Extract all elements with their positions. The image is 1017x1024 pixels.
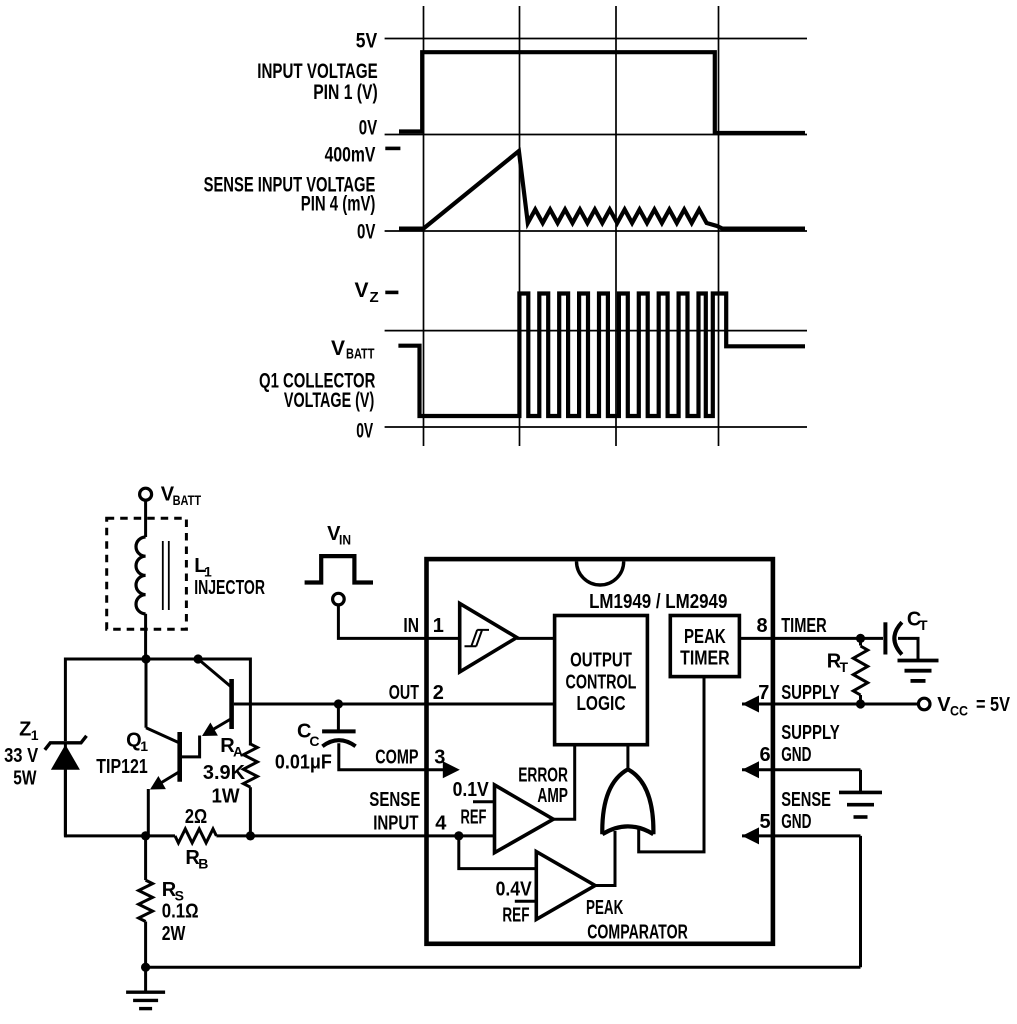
label VBATT (terminal) bbox=[161, 484, 202, 508]
label Q1 COLLECTOR bbox=[259, 370, 375, 393]
svg-text:ERROR: ERROR bbox=[518, 765, 568, 787]
svg-text:TIP121: TIP121 bbox=[96, 756, 147, 778]
svg-text:GND: GND bbox=[781, 744, 811, 766]
VIN pulse symbol bbox=[305, 556, 373, 582]
svg-text:T: T bbox=[919, 617, 928, 633]
label 0V (collector) bbox=[356, 420, 373, 443]
svg-text:SENSE: SENSE bbox=[369, 789, 420, 811]
waveform grid VBATT level line bbox=[385, 330, 807, 332]
svg-text:0V: 0V bbox=[359, 116, 377, 139]
svg-text:PIN 4 (mV): PIN 4 (mV) bbox=[301, 193, 376, 216]
label 33 V bbox=[4, 745, 39, 767]
svg-text:OUTPUT: OUTPUT bbox=[570, 649, 632, 671]
svg-text:AMP: AMP bbox=[537, 785, 568, 807]
svg-text:1: 1 bbox=[31, 727, 39, 743]
node emitter/RS junction bbox=[141, 831, 150, 840]
node RT bottom junction bbox=[856, 699, 865, 708]
node RT/CT junction bbox=[856, 634, 865, 643]
label PEAK COMPARATOR bbox=[586, 897, 688, 944]
wire OR gate right input from peak timer bbox=[639, 677, 704, 852]
IC notch bbox=[577, 561, 624, 585]
resistor RT bbox=[853, 638, 867, 704]
svg-text:Z: Z bbox=[19, 719, 31, 741]
node driver collector junction bbox=[194, 654, 203, 663]
svg-text:7: 7 bbox=[758, 682, 769, 704]
capacitor CT bbox=[885, 622, 902, 654]
wire peak comparator output bbox=[595, 831, 615, 886]
Q1 driver emitter bbox=[180, 719, 232, 757]
svg-text:0.1Ω: 0.1Ω bbox=[162, 901, 199, 923]
svg-text:SUPPLY: SUPPLY bbox=[781, 722, 840, 744]
error amp 0.1V REF input bbox=[473, 800, 495, 803]
label 5V bbox=[356, 29, 377, 52]
wire CT to ground bbox=[898, 638, 918, 660]
svg-text:LM1949 / LM2949: LM1949 / LM2949 bbox=[589, 591, 727, 613]
svg-text:C: C bbox=[309, 733, 319, 749]
wire pin 7 SUPPLY external bbox=[742, 696, 918, 713]
wire top rail bbox=[65, 659, 250, 837]
label TIP121 bbox=[96, 756, 147, 778]
label 0.01uF bbox=[275, 751, 332, 773]
svg-text:OUT: OUT bbox=[389, 682, 419, 704]
svg-text:5V: 5V bbox=[356, 29, 377, 52]
svg-text:IN: IN bbox=[403, 615, 419, 637]
IC box LM1949 bbox=[427, 559, 773, 944]
svg-text:5: 5 bbox=[760, 811, 771, 833]
node CC junction bbox=[334, 699, 343, 708]
svg-text:INPUT: INPUT bbox=[373, 813, 418, 835]
wire Z1 to bottom rail bbox=[64, 770, 67, 836]
wire VBATT to L1 bbox=[144, 501, 147, 538]
label VZ bbox=[354, 279, 378, 306]
label 0V (input) bbox=[359, 116, 377, 139]
svg-text:LOGIC: LOGIC bbox=[576, 693, 625, 715]
label 0.1V REF bbox=[453, 779, 490, 828]
waveform grid 0V line (sense input) bbox=[385, 230, 807, 232]
svg-text:PEAK: PEAK bbox=[684, 626, 726, 648]
transistor Q1 driver device bar bbox=[229, 679, 234, 729]
label 0.4V REF bbox=[496, 879, 533, 927]
inductor L1 bbox=[136, 537, 146, 614]
wire sense to peak comparator bbox=[459, 836, 537, 869]
svg-text:SUPPLY: SUPPLY bbox=[781, 682, 840, 704]
svg-text:V: V bbox=[331, 337, 345, 360]
svg-text:5W: 5W bbox=[13, 767, 36, 789]
svg-text:COMPARATOR: COMPARATOR bbox=[587, 922, 688, 944]
capacitor CC bbox=[322, 704, 426, 770]
wire bottom rail left bbox=[65, 834, 175, 837]
VCC terminal bbox=[918, 698, 930, 710]
label Z1 bbox=[19, 719, 39, 744]
svg-text:Z: Z bbox=[370, 289, 379, 306]
svg-text:0.1V: 0.1V bbox=[453, 779, 490, 801]
svg-text:2: 2 bbox=[433, 682, 444, 704]
Q1 output emitter bbox=[148, 772, 179, 836]
label 3.9K bbox=[203, 762, 246, 784]
label ERROR AMP bbox=[518, 765, 568, 807]
waveform grid 0V line (input voltage) bbox=[385, 134, 807, 136]
pin 5 label SENSE GND bbox=[760, 789, 832, 833]
peak comparator 0.4V REF input bbox=[515, 900, 537, 903]
svg-text:1: 1 bbox=[140, 738, 148, 754]
wire pin 3 COMP inside bbox=[427, 761, 460, 778]
wire bottom rail right bbox=[216, 834, 426, 837]
svg-text:400mV: 400mV bbox=[325, 144, 376, 167]
waveform grid vertical lines bbox=[424, 6, 719, 446]
waveform grid horizontal 5V level line bbox=[385, 38, 807, 40]
pin 6 label SUPPLY GND bbox=[760, 722, 841, 766]
svg-text:REF: REF bbox=[502, 905, 529, 927]
svg-text:33 V: 33 V bbox=[4, 745, 39, 767]
label 0V (sense) bbox=[357, 221, 375, 244]
svg-text:= 5V: = 5V bbox=[976, 694, 1011, 716]
svg-text:REF: REF bbox=[461, 806, 487, 828]
label OUTPUT CONTROL LOGIC bbox=[566, 649, 637, 715]
svg-text:0.4V: 0.4V bbox=[496, 879, 533, 901]
ground symbol main bbox=[126, 967, 165, 1008]
pin 1 label IN bbox=[403, 615, 443, 637]
label CC bbox=[297, 721, 320, 750]
label RA bbox=[220, 735, 243, 760]
svg-text:VOLTAGE (V): VOLTAGE (V) bbox=[284, 389, 374, 412]
label PIN 4 (mV) bbox=[301, 193, 376, 216]
label VIN bbox=[327, 523, 351, 547]
zener diode Z1 triangle bbox=[51, 745, 80, 770]
svg-text:IN: IN bbox=[339, 531, 351, 547]
schmitt buffer U1a bbox=[460, 603, 517, 672]
svg-text:INPUT VOLTAGE: INPUT VOLTAGE bbox=[257, 60, 377, 83]
svg-text:T: T bbox=[840, 659, 849, 675]
OUTPUT CONTROL LOGIC box bbox=[555, 616, 648, 745]
VIN terminal bbox=[333, 593, 345, 605]
op-amp peak comparator bbox=[536, 852, 595, 920]
label SENSE INPUT VOLTAGE bbox=[204, 173, 376, 196]
node sense input inside IC bbox=[427, 831, 495, 840]
svg-text:2Ω: 2Ω bbox=[185, 806, 207, 828]
svg-text:INJECTOR: INJECTOR bbox=[194, 577, 265, 599]
svg-text:0V: 0V bbox=[357, 221, 375, 244]
schmitt hysteresis symbol bbox=[465, 630, 490, 646]
label CT bbox=[907, 609, 928, 634]
resistor RB bbox=[175, 829, 216, 843]
injector dashed box bbox=[107, 518, 187, 629]
svg-text:4: 4 bbox=[435, 813, 447, 835]
L1 core lines bbox=[163, 541, 169, 610]
label L1 bbox=[194, 555, 212, 579]
svg-text:PEAK: PEAK bbox=[586, 897, 624, 919]
Q1 driver collector bbox=[198, 659, 231, 687]
OR gate bbox=[602, 769, 653, 834]
zener diode Z1 cathode bar bbox=[45, 736, 87, 750]
ground symbol supply bbox=[898, 661, 939, 681]
transistor Q1 output device bar bbox=[177, 732, 182, 782]
node RA junction bbox=[246, 831, 255, 840]
label VCC = 5V bbox=[937, 694, 1010, 718]
wire pin 8 TIMER external bbox=[773, 637, 883, 640]
label VOLTAGE (V) bbox=[284, 389, 374, 412]
op-amp error amp bbox=[495, 785, 554, 853]
label 2ohm bbox=[185, 806, 207, 828]
label Q1 bbox=[126, 730, 148, 755]
svg-text:CC: CC bbox=[950, 702, 968, 718]
label RT bbox=[827, 651, 849, 676]
svg-text:B: B bbox=[198, 856, 208, 872]
pin 7 label SUPPLY bbox=[758, 682, 840, 704]
svg-text:SENSE: SENSE bbox=[781, 789, 831, 811]
svg-text:COMP: COMP bbox=[375, 747, 418, 769]
wire schmitt output bbox=[517, 637, 555, 640]
svg-text:PIN 1 (V): PIN 1 (V) bbox=[313, 81, 378, 104]
wire pin 2 inside IC bbox=[427, 703, 555, 706]
ground symbol sense bbox=[839, 792, 882, 817]
label 2W bbox=[162, 923, 186, 945]
svg-text:8: 8 bbox=[757, 615, 768, 637]
svg-text:CONTROL: CONTROL bbox=[566, 671, 637, 693]
label PEAK TIMER bbox=[680, 626, 730, 670]
label 1W bbox=[212, 786, 240, 808]
label VBATT (waveform) bbox=[331, 337, 375, 363]
waveform grid 0V line (Q1 collector) bbox=[385, 426, 807, 428]
wire error amp output bbox=[553, 745, 574, 820]
VZ tick mark bbox=[385, 291, 398, 295]
PEAK TIMER box bbox=[670, 616, 739, 677]
svg-text:3.9K: 3.9K bbox=[203, 762, 246, 784]
node ground junction bbox=[141, 963, 150, 972]
pin 8 label TIMER bbox=[757, 615, 828, 637]
resistor RA bbox=[243, 744, 257, 836]
wire L1 to top rail bbox=[144, 614, 147, 661]
svg-text:1: 1 bbox=[433, 615, 444, 637]
node L1/collector junction bbox=[141, 654, 150, 663]
wire VIN to pin 1 bbox=[338, 605, 459, 639]
label RB bbox=[185, 847, 208, 872]
400mV tick mark bbox=[385, 147, 400, 151]
Q1 collector voltage waveform bbox=[398, 294, 805, 417]
svg-text:TIMER: TIMER bbox=[680, 648, 730, 670]
pin 2 label OUT bbox=[389, 682, 444, 704]
VBATT terminal bbox=[140, 488, 152, 500]
wire pin 2 OUT to Q1 base bbox=[234, 703, 427, 706]
Q1 output collector bbox=[146, 659, 179, 743]
wire ground rail bbox=[146, 966, 861, 969]
label INJECTOR bbox=[194, 577, 265, 599]
wire pin 6 SUPPLY GND external bbox=[742, 761, 861, 792]
wire pin 5 SENSE GND external bbox=[742, 827, 861, 967]
label RS bbox=[162, 879, 184, 904]
label LM1949 / LM2949 bbox=[589, 591, 727, 613]
label 0.1ohm bbox=[162, 901, 199, 923]
svg-text:BATT: BATT bbox=[173, 492, 202, 508]
sense input voltage waveform (pin 4) bbox=[399, 151, 805, 229]
svg-text:2W: 2W bbox=[162, 923, 186, 945]
label PIN 1 (V) bbox=[313, 81, 378, 104]
pin 4 label SENSE INPUT bbox=[369, 789, 447, 835]
svg-text:0.01μF: 0.01μF bbox=[275, 751, 332, 773]
svg-text:A: A bbox=[233, 744, 243, 760]
svg-text:TIMER: TIMER bbox=[781, 615, 827, 637]
svg-text:6: 6 bbox=[760, 744, 771, 766]
wire OR gate output bbox=[626, 745, 629, 770]
svg-text:BATT: BATT bbox=[346, 346, 375, 363]
svg-text:V: V bbox=[354, 279, 368, 302]
svg-text:1W: 1W bbox=[212, 786, 240, 808]
svg-text:0V: 0V bbox=[356, 420, 373, 443]
label 400mV bbox=[325, 144, 376, 167]
wire pin 8 inside bbox=[739, 637, 773, 640]
input voltage waveform (pin 1) bbox=[399, 52, 805, 133]
label INPUT VOLTAGE bbox=[257, 60, 377, 83]
pin 3 label COMP bbox=[375, 747, 445, 769]
resistor RS bbox=[139, 836, 153, 967]
label 5W bbox=[13, 767, 36, 789]
svg-text:GND: GND bbox=[781, 811, 811, 833]
